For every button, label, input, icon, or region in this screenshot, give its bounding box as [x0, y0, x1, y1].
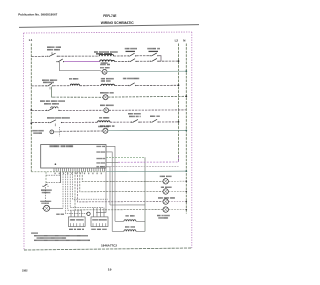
- lamp B1: [145, 179, 186, 184]
- label conv fan: [100, 92, 114, 94]
- terminal block A: [68, 217, 85, 227]
- wire row1 from L1: [31, 55, 46, 57]
- bundle wire 4 (box A): [68, 172, 82, 211]
- wire jog row1 to row2: [158, 56, 161, 62]
- schematic dashed border bottom: [24, 248, 192, 250]
- wire purple row2: [64, 61, 99, 63]
- EOC pin1 dot: [55, 163, 57, 165]
- wire row6: [110, 121, 131, 123]
- heating element coil (convection): [101, 84, 114, 86]
- label 40w max: [157, 215, 170, 219]
- bundle wire 2 (to motor link): [62, 172, 64, 209]
- switch TOD row1: [128, 53, 136, 56]
- wire corner y182.4: [46, 181, 61, 183]
- wire row2: [115, 60, 129, 62]
- bundle wire 8 (lamp 3 feed): [77, 172, 162, 202]
- label P1 B2: [57, 214, 64, 215]
- junction row3 L2: [178, 84, 180, 86]
- relay contact row5: [46, 108, 60, 111]
- wire row6 to L2: [159, 121, 179, 123]
- label broil relay: [42, 79, 57, 83]
- label row6 switch a: [129, 116, 140, 117]
- label oven lamp 1: [160, 176, 172, 177]
- L2 rail: [178, 44, 180, 163]
- wire cool fan feed to lamp rail: [110, 204, 145, 206]
- node L2 label: [175, 38, 179, 42]
- lamp B3: [163, 199, 186, 204]
- EOC exit wire green to lamp rail: [106, 156, 145, 158]
- relay coil row3: [70, 84, 79, 86]
- wire row5 crossing mark at L2: [178, 108, 180, 111]
- wire row3: [80, 85, 101, 87]
- terminal block B pin drops: [94, 208, 105, 217]
- note line 2: [34, 240, 90, 241]
- junction row6 L2: [178, 121, 180, 123]
- switch row6 b: [150, 119, 159, 122]
- label conv element: [101, 78, 114, 82]
- label dlb relay coil: [126, 215, 135, 216]
- junction row4 N: [185, 95, 187, 97]
- thermal fuse: [42, 184, 48, 187]
- wire fuse chain from long run: [45, 172, 47, 184]
- EOC pin numbers: [55, 173, 102, 175]
- wire fuse to motor: [44, 187, 46, 204]
- header rule: [19, 25, 199, 28]
- EOC connector comb: [54, 168, 104, 172]
- wire row1: [58, 55, 99, 57]
- junction row7 N: [185, 130, 187, 132]
- label oven lamp sw: [100, 105, 113, 107]
- junction teal N lower: [185, 170, 187, 172]
- wire row4 to N: [108, 95, 186, 98]
- wire row3: [53, 85, 70, 87]
- junction lamp4 N: [186, 209, 188, 211]
- wire coil2 to lamp rail: [136, 230, 145, 232]
- bundle wire 1 (bold): [60, 172, 62, 183]
- label top element line2: [96, 53, 112, 54]
- label latch motor below: [98, 126, 109, 128]
- svg-text:10/02: 10/02: [22, 268, 28, 272]
- junction row6 L1: [30, 122, 32, 124]
- label oven lamp row7: [100, 125, 115, 127]
- meat probe receptacle: [50, 127, 60, 136]
- EOC exit wire gray to cool fan feed: [106, 167, 110, 205]
- motor conv fan: [42, 205, 49, 211]
- grommet circle: [87, 212, 90, 215]
- label latch motor: [99, 117, 109, 119]
- bundle wire 3: [65, 172, 88, 214]
- svg-text:L1: L1: [29, 38, 33, 42]
- relay contact broil row3: [46, 83, 53, 89]
- label row6 switch b: [150, 116, 160, 117]
- label under terminal block B: [92, 229, 107, 230]
- wire row7 to N green: [108, 129, 186, 131]
- header title WIRING SCHEMATIC: [101, 21, 134, 25]
- label motor door latch: [47, 117, 69, 119]
- schematic dashed border top: [24, 32, 192, 33]
- wire coil2 feed: [112, 230, 124, 232]
- label door latch sw small: [128, 113, 141, 114]
- wire coil1 to lamp rail: [136, 220, 145, 222]
- switch row3: [128, 83, 137, 86]
- relay contact K1 row1: [47, 52, 58, 57]
- wire gray y166 to L2: [110, 165, 179, 167]
- lamp row7: [103, 128, 108, 133]
- wire row4: [53, 96, 103, 98]
- EOC right side pin labels: [97, 146, 106, 168]
- switch thermal limiter row1: [150, 53, 159, 56]
- label bake relay coil: [125, 226, 135, 227]
- wire row5 to N: [109, 109, 187, 111]
- footer date 10/02: [22, 268, 28, 272]
- label TOD switch: [125, 48, 137, 50]
- wire row1: [136, 55, 150, 57]
- label top element: [94, 51, 118, 53]
- wire row5 dashed: [60, 109, 103, 111]
- node N label: [183, 38, 185, 42]
- schematic dashed border left: [23, 33, 26, 250]
- L1 rail: [30, 44, 32, 172]
- relay contact K1 row2: [56, 59, 64, 62]
- node L1 label: [29, 38, 33, 42]
- EOC corner drop wire: [96, 168, 106, 212]
- svg-text:WIRING SCHEMATIC: WIRING SCHEMATIC: [101, 21, 134, 25]
- switch row2 a: [128, 59, 136, 62]
- header publication number: [18, 13, 57, 17]
- wire row2 to L2: [159, 60, 179, 62]
- label TOD conv: [123, 78, 139, 80]
- svg-text:L2: L2: [175, 38, 179, 42]
- bundle wire 10 (lamp 1 feed): [82, 172, 163, 182]
- label relay coil: [69, 78, 78, 80]
- EOC exit wire dlb relay: [106, 152, 112, 232]
- lamp rail vertical green: [144, 157, 146, 231]
- wire row5 from L1: [31, 109, 46, 111]
- label thermal fuse: [41, 189, 52, 193]
- label TOD bake line2: [126, 51, 136, 52]
- wire long run L1 to N (y171.7): [31, 171, 106, 173]
- label latch motor relay: [44, 103, 59, 105]
- header model number FEFL74E: [103, 14, 117, 18]
- wire coil1 feed: [115, 220, 124, 222]
- N rail: [185, 44, 187, 214]
- wire row3 from L1: [31, 85, 46, 87]
- drawing number 1846A77C2: [101, 244, 118, 248]
- bundle wire 7 (lamp 4 feed): [75, 172, 163, 210]
- label under terminal block A: [69, 229, 84, 230]
- label row4 left: [40, 100, 65, 102]
- terminal block A pin drops: [71, 210, 82, 217]
- wire teal lamp to N: [107, 70, 186, 73]
- lamp B4: [163, 207, 186, 212]
- note line 1b: [37, 237, 66, 238]
- junction row2 L2: [178, 60, 180, 62]
- label broil element: [100, 64, 110, 66]
- junction teal N: [185, 70, 187, 72]
- relay coil dlb: [124, 220, 136, 222]
- wire teal N feed: [106, 170, 186, 173]
- wire row1: [114, 55, 128, 57]
- label bake relay: [47, 46, 61, 50]
- wire row3 to L2: [136, 84, 178, 86]
- wire row3: [115, 85, 128, 87]
- EOC box electronic oven control: [41, 145, 106, 169]
- note line 1: [34, 235, 88, 236]
- label EXP: [33, 130, 44, 134]
- label oven lamp 3: [158, 197, 175, 198]
- label oven signal light: [100, 62, 109, 68]
- wire motor to bundle: [50, 207, 63, 209]
- wire row7: [60, 130, 103, 132]
- bundle wire 9 (lamp 2 feed): [80, 172, 163, 192]
- label thermal limiter: [148, 48, 161, 50]
- motor conv fan row4: [103, 95, 108, 100]
- label oven lamp 2: [161, 187, 172, 188]
- lamp oven signal light: [101, 69, 107, 74]
- heating element coil (bake/top): [99, 54, 114, 56]
- notes heading: [31, 232, 37, 233]
- wire row6: [140, 121, 151, 123]
- svg-text:Publication No. 5995518067: Publication No. 5995518067: [18, 13, 57, 17]
- terminal block B: [91, 217, 108, 227]
- svg-text:N: N: [183, 38, 185, 42]
- wire row2 contact down to signal light: [60, 62, 101, 71]
- junction lamp1 N: [186, 180, 188, 182]
- junction lamp3 N: [186, 201, 188, 203]
- label conv fan motor: [41, 201, 52, 204]
- relay coil bake: [124, 230, 136, 232]
- svg-text:FEFL74E: FEFL74E: [103, 14, 117, 18]
- switch row6 a: [131, 119, 140, 122]
- EOC title: [50, 145, 73, 147]
- relay coil row5: [51, 107, 59, 108]
- svg-text:1846A77C2: 1846A77C2: [101, 244, 118, 248]
- bundle wire 5 (box B): [70, 172, 104, 208]
- EOC exit wire purple to L2: [106, 155, 179, 163]
- svg-text:19: 19: [108, 268, 112, 272]
- switch row2 b: [150, 59, 159, 62]
- EOC exit wire bake relay (right): [106, 146, 115, 221]
- wire row2: [137, 60, 151, 62]
- footer page 19: [108, 268, 112, 272]
- switch row6 left: [48, 120, 62, 126]
- label thermal sw line2: [149, 51, 159, 52]
- lamp row5: [104, 108, 109, 113]
- bundle wire 6 (mid fan): [73, 172, 108, 200]
- junction row5 L1: [30, 109, 32, 111]
- wire corner y175.2: [46, 174, 61, 176]
- wire row6: [62, 121, 97, 123]
- motor coil row6: [98, 121, 110, 122]
- junction lamp2 N: [186, 191, 188, 193]
- wire row6 from L1: [31, 122, 48, 124]
- wire row4 drop from row3: [52, 87, 54, 98]
- lamp B2: [163, 189, 186, 194]
- heating element coil (broil): [100, 60, 115, 62]
- schematic dashed border right: [191, 32, 193, 248]
